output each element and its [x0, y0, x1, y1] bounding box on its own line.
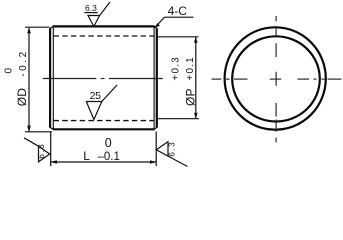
roughness symbol 25 on bore: [86, 85, 117, 120]
side view center line: [43, 78, 163, 80]
roughness symbol 6.3 bottom-left: [24, 138, 50, 162]
front view vertical center line: [275, 16, 277, 142]
dim P extension line top: [158, 36, 199, 38]
svg-text:0: 0: [4, 68, 15, 74]
svg-text:ØD: ØD: [15, 88, 29, 107]
svg-text:-0.2: -0.2: [18, 49, 29, 77]
side view corner chamfers: [50, 27, 157, 130]
dim D dimension line: [28, 28, 30, 132]
dim P arrow up: [194, 37, 198, 43]
dim D arrow up: [27, 27, 31, 33]
dim L arrow left: [51, 160, 57, 164]
svg-text:0: 0: [105, 136, 112, 150]
dim L extension line left: [50, 132, 52, 167]
svg-text:L: L: [83, 149, 90, 163]
dim L dimension line: [51, 161, 157, 163]
roughness symbol 6.3 top: [84, 2, 110, 27]
chamfer line right: [153, 27, 155, 129]
dim P arrow down: [194, 113, 198, 119]
dim D value text: [4, 49, 30, 106]
svg-text:+0.3: +0.3: [171, 56, 182, 81]
dim P dimension line: [195, 37, 197, 118]
roughness symbol 6.3 bottom-right: [156, 142, 187, 167]
front view horizontal center line: [212, 78, 342, 80]
svg-text:+0.1: +0.1: [185, 56, 196, 81]
bore hidden line bottom: [54, 120, 154, 122]
chamfer line left: [52, 27, 54, 129]
dim L extension line right: [155, 132, 157, 167]
svg-text:6.3: 6.3: [37, 143, 46, 159]
front view outer circle: [225, 27, 326, 129]
dim P extension line bottom: [158, 118, 200, 120]
svg-text:4-C: 4-C: [168, 4, 188, 18]
dim D arrow down: [27, 126, 31, 132]
svg-text:ØP: ØP: [183, 88, 197, 106]
side view outer contour: [50, 26, 157, 129]
dim L arrow right: [150, 160, 156, 164]
dim L value text: [83, 136, 120, 163]
svg-text:–0.1: –0.1: [98, 151, 120, 163]
dim D extension line bottom: [25, 131, 52, 133]
bore hidden line top: [54, 35, 154, 37]
dim D extension line top: [25, 26, 50, 28]
svg-text:25: 25: [90, 90, 102, 102]
front view bore circle: [232, 36, 320, 121]
chamfer note 4-C: [155, 4, 194, 28]
svg-text:6.3: 6.3: [85, 3, 97, 13]
svg-text:6.3: 6.3: [167, 141, 176, 157]
dim P value text: [171, 56, 198, 106]
